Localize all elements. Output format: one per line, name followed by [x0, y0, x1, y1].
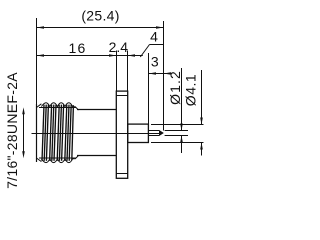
svg-text:16: 16 [69, 40, 87, 56]
center pin top [148, 130, 159, 132]
connector body left face [36, 104, 38, 162]
dia 4.1 arrow down [200, 118, 203, 125]
16 arrow right [109, 54, 117, 57]
barrel smooth section top [77, 109, 116, 111]
dia 4.1 lower tail [201, 143, 203, 156]
thread hatching [42, 105, 73, 161]
dia 1.2 arrow up [180, 136, 183, 143]
extension line bushing bottom [151, 142, 204, 144]
dia 4.1 dimension line [201, 70, 203, 125]
dia 1.2 lower tail [181, 136, 183, 154]
svg-text:3: 3 [151, 54, 159, 70]
chamfer top-left [37, 104, 42, 108]
extension line bushing top [151, 124, 204, 126]
svg-text:Ø4.1: Ø4.1 [183, 74, 199, 106]
thread diameter dimension line [23, 112, 25, 153]
extension line left face [36, 18, 38, 104]
3 arrow at pin tip line [164, 72, 172, 75]
2.4 arrow (outside, pointing left) [128, 54, 136, 57]
thread dim arrow up [22, 107, 25, 114]
barrel smooth section bottom [77, 155, 116, 157]
25.4 arrow right [156, 26, 164, 29]
dia 4.1 arrow up [200, 143, 203, 150]
extension line flange right [127, 51, 129, 92]
thread runout bottom [75, 156, 79, 160]
thread crest zigzag bottom [41, 159, 74, 163]
extension line pin top [165, 130, 188, 132]
dimension 16 line with 2.4 continuation [37, 55, 143, 57]
svg-text:4: 4 [150, 29, 158, 45]
thread root line bottom [39, 157, 76, 159]
leader shelf for 4 [150, 44, 164, 46]
svg-text:(25.4): (25.4) [81, 8, 119, 24]
dia 1.2 dimension line [181, 68, 183, 131]
extension line bushing right [148, 53, 150, 124]
center pin tick [159, 131, 161, 136]
thread dim arrow down [22, 151, 25, 158]
flange [116, 91, 127, 178]
16 arrow left [37, 54, 45, 57]
chamfer bottom-left [37, 158, 42, 162]
dia 1.2 arrow down [180, 124, 183, 131]
center pin tip [160, 131, 164, 136]
thread crest zigzag top [41, 103, 74, 107]
leader diagonal for 4 [140, 45, 149, 58]
thread runout top [75, 107, 79, 111]
svg-text:2.4: 2.4 [109, 39, 129, 55]
25.4 arrow left [37, 26, 45, 29]
dimension 3 line [149, 73, 172, 75]
thread root line top [39, 107, 76, 109]
extension line flange left [116, 51, 118, 92]
center pin bottom [148, 135, 159, 137]
svg-text:7/16"-28UNEF-2A: 7/16"-28UNEF-2A [4, 72, 20, 189]
insulator bushing [128, 124, 149, 142]
extension line pin tip [163, 21, 165, 131]
3 arrow at bushing edge [149, 72, 157, 75]
flange chamfer line bottom [116, 173, 127, 175]
dimension 25.4 line [37, 27, 164, 29]
extension line pin bottom [165, 135, 188, 137]
flange chamfer line top [116, 95, 127, 97]
centerline [32, 133, 160, 135]
svg-text:Ø1.2: Ø1.2 [167, 70, 183, 105]
